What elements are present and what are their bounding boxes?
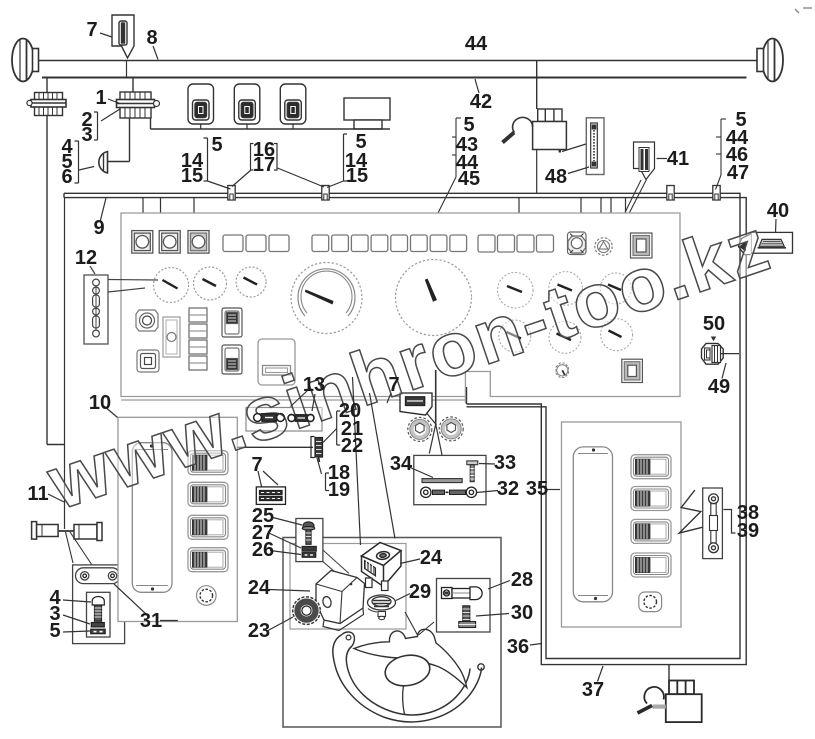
svg-text:7: 7 [251, 454, 262, 476]
svg-text:35: 35 [526, 478, 548, 500]
svg-text:36: 36 [507, 636, 529, 658]
svg-text:42: 42 [470, 91, 492, 113]
svg-text:19: 19 [328, 479, 350, 501]
svg-text:34: 34 [390, 453, 413, 475]
svg-text:24: 24 [248, 577, 271, 599]
svg-text:9: 9 [93, 217, 104, 239]
svg-text:32: 32 [497, 478, 519, 500]
svg-text:41: 41 [667, 148, 689, 170]
svg-text:13: 13 [303, 374, 325, 396]
svg-text:33: 33 [494, 452, 516, 474]
svg-text:29: 29 [409, 581, 431, 603]
svg-text:1: 1 [95, 87, 106, 109]
svg-text:15: 15 [181, 165, 203, 187]
svg-text:7: 7 [86, 19, 97, 41]
svg-text:24: 24 [420, 547, 443, 569]
svg-text:30: 30 [511, 602, 533, 624]
svg-text:5: 5 [49, 620, 60, 642]
svg-text:15: 15 [346, 165, 368, 187]
svg-text:28: 28 [511, 569, 533, 591]
svg-text:8: 8 [146, 27, 157, 49]
svg-text:47: 47 [727, 162, 749, 184]
svg-text:17: 17 [253, 154, 275, 176]
svg-text:48: 48 [545, 166, 567, 188]
svg-text:7: 7 [388, 374, 399, 396]
svg-text:3: 3 [81, 124, 92, 146]
svg-text:50: 50 [703, 313, 725, 335]
svg-text:49: 49 [708, 376, 730, 398]
svg-text:45: 45 [458, 168, 480, 190]
svg-text:39: 39 [737, 520, 759, 542]
svg-text:12: 12 [75, 247, 97, 269]
svg-text:11: 11 [27, 483, 48, 505]
svg-text:23: 23 [248, 620, 270, 642]
svg-text:6: 6 [61, 166, 72, 188]
svg-text:5: 5 [463, 114, 474, 136]
svg-text:31: 31 [140, 610, 162, 632]
svg-text:44: 44 [465, 33, 488, 55]
svg-text:26: 26 [252, 539, 274, 561]
svg-text:10: 10 [89, 392, 111, 414]
svg-text:5: 5 [211, 134, 222, 156]
svg-text:22: 22 [341, 435, 363, 457]
svg-text:37: 37 [582, 679, 604, 701]
svg-text:40: 40 [767, 200, 789, 222]
